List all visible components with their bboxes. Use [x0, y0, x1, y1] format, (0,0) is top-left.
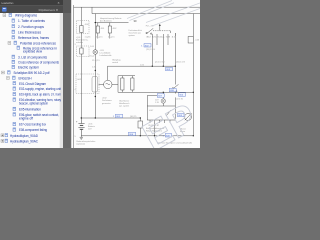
connector label X09	[163, 134, 172, 138]
svg-text:control: control	[112, 61, 119, 64]
svg-text:Batterietrenn-: Batterietrenn-	[76, 39, 88, 42]
svg-text:2 (-)2.5: 2 (-)2.5	[108, 37, 115, 39]
junction dots	[81, 22, 194, 137]
panel title bar	[0, 0, 71, 5]
battery G01	[76, 118, 85, 136]
svg-text:Line thicknesses: Line thicknesses	[18, 30, 41, 34]
glow plug R01	[121, 78, 124, 90]
fuse F02	[108, 26, 111, 33]
wire main distribution riser	[94, 14, 96, 118]
fuse box F03 dashed enclosure	[77, 46, 90, 57]
svg-text:14 (-)2: 14 (-)2	[89, 56, 96, 58]
svg-text:Optionen ▾: Optionen ▾	[39, 8, 59, 12]
glow plug R02	[131, 78, 134, 90]
svg-text:(optional): (optional)	[77, 142, 86, 145]
frame border lines	[73, 5, 75, 148]
indicator lamp H04	[161, 99, 165, 103]
battery master switch S30	[138, 118, 143, 136]
svg-text:(15) 2.5 B: (15) 2.5 B	[146, 49, 155, 51]
svg-text:maschine opt.: maschine opt.	[129, 32, 142, 35]
svg-text:ENGLISH: ENGLISH	[19, 76, 33, 80]
svg-text:E05-illumination: E05-illumination	[19, 108, 41, 112]
wire ground bus bottom	[81, 135, 193, 137]
wire battery positive riser	[80, 7, 82, 118]
watermark	[0, 1, 204, 160]
svg-text:Hauptsicherung Batterie: Hauptsicherung Batterie	[100, 17, 122, 20]
wire generator D+ riser	[107, 66, 109, 80]
page	[71, 0, 200, 148]
connector label X07	[157, 94, 164, 98]
svg-text:Wiring diagrams: Wiring diagrams	[15, 14, 37, 18]
generator G02 dashed enclosure	[76, 74, 99, 94]
svg-text:(30) 25: (30) 25	[130, 116, 137, 118]
wire fuse F02 leads	[109, 23, 111, 26]
svg-text:1 (-)35: 1 (-)35	[85, 37, 92, 39]
svg-text:system: system	[129, 34, 136, 37]
svg-text:(bei Batterie): (bei Batterie)	[100, 20, 112, 23]
svg-text:Batteriehauptschalter: Batteriehauptschalter	[77, 140, 96, 143]
wire S01 terminal drops	[152, 33, 175, 94]
wire relay feed L	[147, 95, 157, 97]
svg-text:beacon, optional system: beacon, optional system	[19, 102, 48, 106]
wire fuse feed bus	[95, 22, 128, 24]
svg-text:(15) 1.5 B: (15) 1.5 B	[176, 62, 185, 64]
connector label X01	[113, 114, 123, 118]
svg-text:(2) 1.5 GN: (2) 1.5 GN	[155, 62, 165, 64]
fuse F01	[96, 26, 99, 33]
svg-text:Leuchtdiode: Leuchtdiode	[100, 52, 112, 55]
svg-text:opt. system: opt. system	[119, 105, 130, 108]
svg-text:E03-lights, back up alarm, 2-t: E03-lights, back up alarm, 2-t. horn	[19, 93, 61, 97]
svg-text:Schaltplan BW 90 AD-2.pdf: Schaltplan BW 90 AD-2.pdf	[14, 71, 50, 75]
svg-text:1. Table of contents: 1. Table of contents	[18, 19, 45, 23]
svg-text:Ladekontrolle: Ladekontrolle	[100, 54, 113, 57]
svg-text:2. Function groups: 2. Function groups	[18, 25, 44, 29]
svg-text:E01-Circuit Diagram: E01-Circuit Diagram	[19, 82, 46, 86]
connector label X02	[141, 44, 151, 48]
wire ground rail mid	[118, 91, 193, 93]
document area background	[0, 0, 200, 148]
svg-text:engine off: engine off	[19, 117, 33, 121]
ignition switch S01	[146, 24, 175, 37]
horn B02	[185, 113, 192, 120]
svg-text:exploded view: exploded view	[23, 50, 43, 54]
connector label X05	[178, 113, 185, 117]
ground	[80, 136, 83, 139]
svg-text:Hydraulikplan_90AD: Hydraulikplan_90AD	[10, 134, 39, 138]
connector label X06	[129, 132, 136, 136]
svg-text:generator: generator	[102, 102, 111, 105]
svg-text:Reference lines, frames: Reference lines, frames	[18, 36, 49, 40]
svg-text:Electric system: Electric system	[18, 66, 39, 70]
svg-text:3. List of components: 3. List of components	[18, 55, 47, 59]
fuse F03	[80, 48, 83, 54]
fuse F00	[80, 26, 83, 33]
svg-text:E07-cross bonding box: E07-cross bonding box	[19, 123, 46, 127]
panel toolbar	[0, 5, 71, 13]
tiny schematic annotations	[75, 17, 201, 145]
svg-text:2 (-)2.5: 2 (-)2.5	[96, 37, 103, 39]
wire right-hand main riser	[192, 14, 194, 136]
wire ACC bus	[108, 65, 176, 67]
wire battery positive bus	[81, 117, 140, 119]
wire lamp feed	[162, 92, 164, 93]
component C06	[188, 37, 193, 44]
switch S06	[172, 84, 178, 92]
svg-text:12 (-)2.5: 12 (-)2.5	[92, 60, 100, 62]
svg-text:Potential cross-references: Potential cross-references	[20, 41, 56, 45]
fuse box F00 dashed enclosure	[77, 21, 90, 34]
generator G02	[99, 80, 113, 88]
connector label X03	[166, 67, 173, 71]
svg-text:Drehstrom-: Drehstrom-	[102, 99, 112, 102]
svg-text:Lesezeichen: Lesezeichen	[2, 1, 14, 5]
svg-text:schalter: schalter	[76, 41, 83, 44]
svg-text:Batterie: Batterie	[88, 125, 96, 128]
svg-text:E08-component listing: E08-component listing	[19, 128, 47, 132]
svg-text:Drehstromlicht-: Drehstromlicht-	[129, 29, 143, 32]
connector label X08	[169, 88, 176, 92]
connector label X04	[179, 93, 186, 97]
relay K07	[147, 106, 175, 136]
svg-text:30 15 50a 58 17: 30 15 50a 58 17	[146, 36, 178, 38]
svg-text:Hydraulikplan_90AC: Hydraulikplan_90AC	[10, 139, 39, 143]
wire generator to glow plugs	[112, 76, 135, 93]
svg-text:Cross reference of components: Cross reference of components	[18, 61, 59, 65]
svg-text:E02-supply, engine, starting u: E02-supply, engine, starting unit	[19, 87, 61, 91]
indicator lamp H01	[93, 50, 98, 55]
wire 15-rail top	[92, 13, 200, 15]
svg-text:×: ×	[58, 1, 60, 5]
wire fuse F01 leads	[97, 23, 99, 26]
bookmark tree	[1, 13, 61, 143]
